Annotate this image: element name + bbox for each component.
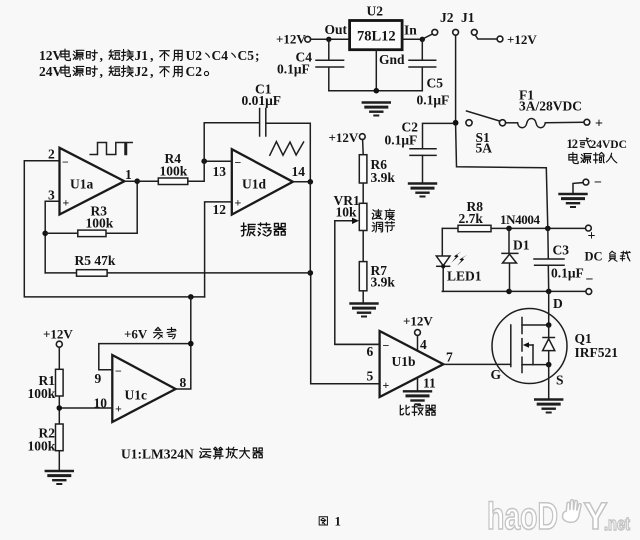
svg-text:3: 3 <box>48 188 55 203</box>
svg-text:0.1μF: 0.1μF <box>417 93 450 108</box>
svg-text:U1c: U1c <box>125 388 148 403</box>
svg-text:13: 13 <box>213 164 227 179</box>
svg-text:Q1: Q1 <box>575 331 593 346</box>
svg-text:,: , <box>150 49 154 64</box>
svg-text:J2: J2 <box>440 10 454 25</box>
svg-text:10: 10 <box>94 396 108 411</box>
svg-text:+12V: +12V <box>329 130 359 145</box>
svg-text:0.1μF: 0.1μF <box>551 266 584 281</box>
svg-text:100k: 100k <box>28 439 56 454</box>
svg-text:D1: D1 <box>513 238 530 253</box>
svg-text:+: + <box>595 117 603 132</box>
svg-text:5: 5 <box>367 369 374 384</box>
svg-text:S: S <box>556 373 564 388</box>
svg-text:U2: U2 <box>367 4 384 19</box>
svg-text:−: − <box>115 364 122 378</box>
svg-text:11: 11 <box>423 376 436 391</box>
svg-text:+: + <box>115 402 122 416</box>
svg-text:+6V: +6V <box>124 327 148 342</box>
svg-text:IRF521: IRF521 <box>575 345 619 360</box>
svg-text:12: 12 <box>213 202 227 217</box>
svg-text:−: − <box>594 176 602 191</box>
svg-text:In: In <box>404 23 417 38</box>
svg-text:DC: DC <box>585 250 603 264</box>
svg-text:2.7k: 2.7k <box>459 211 484 226</box>
svg-text:0.01μF: 0.01μF <box>242 93 282 108</box>
svg-text:12: 12 <box>567 137 579 151</box>
svg-text:1: 1 <box>335 514 342 529</box>
svg-text:,: , <box>100 49 104 64</box>
svg-text:−: − <box>235 156 242 170</box>
svg-text:U2: U2 <box>186 48 203 63</box>
svg-text:C5: C5 <box>238 48 255 63</box>
svg-text:LED1: LED1 <box>447 269 482 284</box>
svg-text:;: ; <box>255 48 260 63</box>
svg-text:haoD: haoD <box>487 496 558 538</box>
svg-text:+: + <box>235 196 242 210</box>
svg-text:3A/28VDC: 3A/28VDC <box>519 99 582 114</box>
svg-text:C5: C5 <box>427 76 444 91</box>
svg-text:9: 9 <box>95 371 102 386</box>
svg-text:8: 8 <box>180 375 187 390</box>
svg-text:5A: 5A <box>476 141 493 156</box>
svg-text:2: 2 <box>48 147 55 162</box>
svg-text:0.1μF: 0.1μF <box>277 62 310 77</box>
svg-text:C3: C3 <box>553 243 570 258</box>
svg-text:100k: 100k <box>28 386 56 401</box>
svg-text:+12V: +12V <box>507 32 537 47</box>
svg-text:C4: C4 <box>212 48 229 63</box>
svg-text:J2: J2 <box>135 64 149 79</box>
svg-text:,: , <box>100 65 104 80</box>
svg-text:1N4004: 1N4004 <box>500 212 541 227</box>
svg-text:1: 1 <box>125 167 132 182</box>
svg-text:U1b: U1b <box>392 354 416 369</box>
svg-text:3.9k: 3.9k <box>371 275 396 290</box>
svg-text:+12V: +12V <box>43 327 73 342</box>
svg-text:3.9k: 3.9k <box>371 170 396 185</box>
svg-text:7: 7 <box>446 350 453 365</box>
svg-text:78L12: 78L12 <box>357 29 396 45</box>
svg-text:C2: C2 <box>186 64 203 79</box>
svg-text:Out: Out <box>325 22 348 37</box>
svg-text:12V: 12V <box>39 48 63 63</box>
svg-text:+: + <box>588 229 596 244</box>
svg-text:+12V: +12V <box>276 32 306 47</box>
svg-text:U1:LM324N: U1:LM324N <box>121 447 194 462</box>
svg-text:D: D <box>553 296 563 311</box>
svg-text:+12V: +12V <box>403 314 433 329</box>
svg-text:+: + <box>63 196 70 210</box>
svg-text:10k: 10k <box>336 205 358 220</box>
svg-text:6: 6 <box>367 344 374 359</box>
svg-text:+: + <box>383 378 390 392</box>
svg-text:R5 47k: R5 47k <box>75 253 116 268</box>
svg-text:0.1μF: 0.1μF <box>385 133 418 148</box>
svg-text:−: − <box>62 155 69 169</box>
svg-text:100k: 100k <box>160 164 188 179</box>
svg-text:U1a: U1a <box>70 177 93 192</box>
svg-text:−: − <box>586 273 594 288</box>
svg-text:.net: .net <box>604 514 630 534</box>
svg-text:J1: J1 <box>461 10 475 25</box>
svg-text:,: , <box>150 65 154 80</box>
svg-text:100k: 100k <box>86 216 114 231</box>
svg-text:Gnd: Gnd <box>379 52 405 67</box>
svg-text:−: − <box>383 339 390 353</box>
svg-text:14: 14 <box>292 164 306 179</box>
svg-text:24VDC: 24VDC <box>591 139 627 151</box>
svg-text:4: 4 <box>420 337 427 352</box>
svg-text:J1: J1 <box>135 48 149 63</box>
svg-text:G: G <box>491 367 502 382</box>
svg-text:24V: 24V <box>39 64 63 79</box>
svg-text:U1d: U1d <box>242 177 266 192</box>
